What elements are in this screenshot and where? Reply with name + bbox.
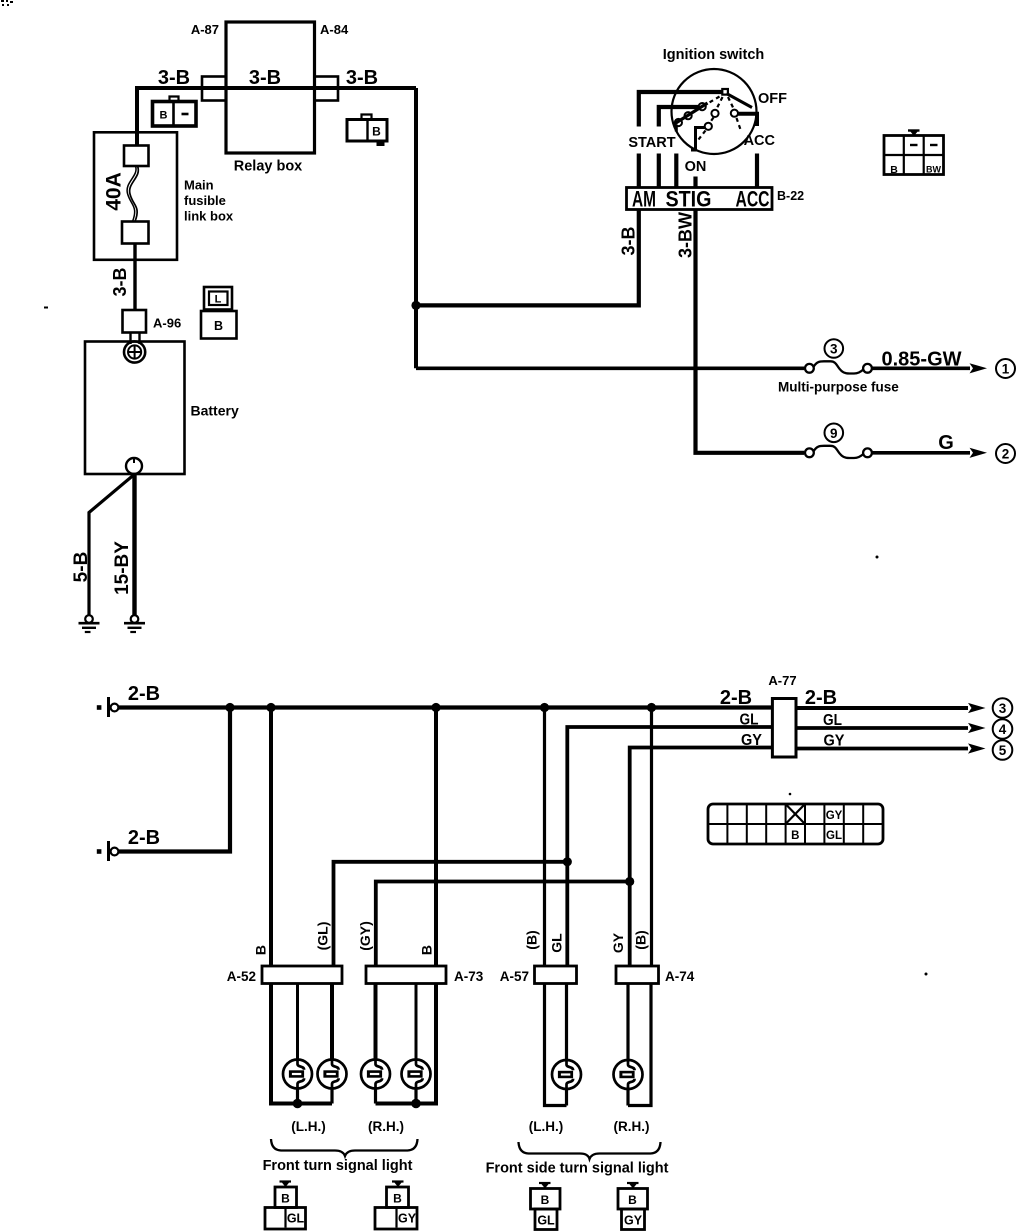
- contact c5: [705, 123, 712, 130]
- svg-text:START: START: [628, 135, 675, 151]
- svg-text:3-B: 3-B: [346, 67, 378, 89]
- svg-text:B: B: [281, 1192, 290, 1206]
- svg-text:B: B: [214, 319, 223, 333]
- ignition switch body circle: [672, 69, 757, 154]
- OFF pointer: [727, 94, 753, 108]
- wire ST feed: [659, 107, 699, 127]
- fuse number 9: [825, 424, 844, 443]
- svg-text:(B): (B): [523, 930, 539, 949]
- svg-text:A-57: A-57: [500, 969, 529, 984]
- wire 15-BY: [132, 474, 136, 616]
- wire to terminal 2: [872, 451, 970, 455]
- svg-text:9: 9: [830, 426, 838, 441]
- node 3: [993, 698, 1013, 718]
- svg-text:G: G: [938, 432, 954, 454]
- stub ACC into B-22: [755, 154, 759, 188]
- connector A-87: [202, 77, 226, 101]
- svg-text:15-BY: 15-BY: [112, 541, 133, 595]
- wire (B) to A-57: [543, 708, 546, 967]
- connector A-77 pin grid: [708, 804, 883, 844]
- svg-text:A-84: A-84: [320, 22, 349, 37]
- junction node bulb1: [293, 1099, 303, 1109]
- connector B-22 box: [627, 188, 773, 210]
- relay box: [226, 22, 315, 153]
- connector A-57: [535, 966, 577, 984]
- stub IG into B-22: [674, 154, 678, 188]
- svg-text:A-77: A-77: [768, 673, 796, 688]
- scan specks top-left corner: [1, 0, 928, 976]
- node 5: [993, 740, 1013, 760]
- junction node rail 4: [540, 703, 549, 712]
- wire A-57 left: [545, 984, 567, 1106]
- svg-text:(GL): (GL): [314, 922, 330, 951]
- wire 3-B: fusible box to A-96: [133, 244, 136, 311]
- svg-text:3-B: 3-B: [110, 267, 130, 296]
- stub ST into B-22: [657, 154, 661, 188]
- fuse terminal bottom: [122, 222, 149, 244]
- wire GY out of A-77: [796, 747, 968, 751]
- svg-text:ACC: ACC: [744, 133, 776, 149]
- svg-text:3-B: 3-B: [158, 67, 190, 89]
- svg-text:GY: GY: [624, 1214, 643, 1228]
- wire bulb4 to rail: [414, 1087, 417, 1104]
- battery terminal stem: [129, 333, 131, 345]
- wire A-73 bulb4 feed: [415, 984, 418, 1062]
- svg-text:GY: GY: [398, 1212, 417, 1226]
- wire 5-B: [89, 476, 133, 616]
- bulb A-52 no1: [283, 1060, 312, 1089]
- svg-text:Ignition switch: Ignition switch: [663, 47, 765, 63]
- svg-text:(GY): (GY): [357, 921, 373, 951]
- wire A-52 return: [271, 984, 332, 1104]
- svg-text:A-74: A-74: [665, 969, 695, 984]
- wire lower ground branch: [119, 708, 231, 852]
- svg-text:2-B: 2-B: [128, 683, 160, 705]
- stub AM into B-22: [637, 154, 641, 188]
- svg-text:OFF: OFF: [758, 91, 787, 107]
- svg-text:3: 3: [999, 701, 1007, 716]
- wire 3-B from AM: [416, 210, 639, 306]
- svg-text:GL: GL: [740, 712, 759, 729]
- wire B to A-73: [434, 708, 438, 967]
- svg-text:40A: 40A: [102, 172, 125, 211]
- junction node rail 1: [225, 703, 234, 712]
- svg-text:(L.H.): (L.H.): [291, 1119, 326, 1134]
- contact c1: [699, 103, 706, 110]
- ground terminal 2-B lower: [97, 841, 119, 861]
- svg-text:GL: GL: [548, 933, 564, 953]
- junction node bulb4: [411, 1099, 421, 1109]
- wire GL main: [567, 727, 772, 966]
- svg-text:B: B: [791, 830, 799, 842]
- stub ON into B-22: [693, 177, 697, 188]
- connector icon B/-: [153, 97, 197, 127]
- dashed pivot to ACC contact: [728, 97, 734, 109]
- svg-text:3-B: 3-B: [618, 226, 638, 255]
- fuse 3: [805, 361, 872, 373]
- svg-text:2: 2: [1002, 447, 1010, 462]
- battery positive terminal: [124, 341, 145, 362]
- junction node: [411, 301, 420, 310]
- wire B to A-52: [269, 708, 273, 967]
- wire A-57 bulb to rail: [565, 1088, 568, 1106]
- svg-text:AM: AM: [632, 187, 656, 212]
- svg-text:3-B: 3-B: [249, 67, 281, 89]
- svg-text:A-73: A-73: [454, 969, 484, 984]
- node 1: [996, 359, 1015, 378]
- svg-text:(R.H.): (R.H.): [368, 1119, 404, 1134]
- svg-text:fusible: fusible: [184, 193, 226, 208]
- svg-text:GL: GL: [823, 712, 842, 729]
- ground 5-B: [79, 615, 100, 632]
- connector icon B/GY front turn: [375, 1182, 417, 1230]
- wire AM feed: [639, 92, 723, 127]
- ground terminal 2-B upper: [97, 697, 119, 717]
- connector A-77: [772, 699, 796, 758]
- junction node rail 3: [431, 703, 440, 712]
- svg-text:GL: GL: [287, 1212, 305, 1226]
- svg-text:ACC: ACC: [736, 187, 770, 212]
- contact c3: [675, 119, 682, 126]
- wire A-73 bulb3 feed: [374, 984, 378, 1062]
- dashed pivot to ST contact: [706, 97, 720, 105]
- svg-text:5-B: 5-B: [71, 552, 92, 583]
- ON wire bracket: [691, 128, 706, 151]
- svg-text:Front turn signal light: Front turn signal light: [263, 1158, 413, 1174]
- svg-text:Battery: Battery: [191, 403, 239, 419]
- wire A-73 return: [376, 984, 437, 1104]
- svg-text:Relay box: Relay box: [234, 159, 303, 175]
- wire A-74 right: [628, 984, 651, 1106]
- battery: [85, 342, 185, 475]
- svg-text:B: B: [628, 1193, 637, 1207]
- svg-text:B: B: [890, 164, 898, 176]
- fuse number 3: [825, 339, 844, 358]
- wire (B) to A-74: [650, 708, 653, 967]
- junction node rail 5: [647, 703, 656, 712]
- dashed pivot to ON contacts: [717, 97, 723, 109]
- stub IG upper: [675, 125, 678, 132]
- fusible link element: [130, 166, 139, 222]
- svg-text:Front side turn signal light: Front side turn signal light: [486, 1161, 669, 1177]
- svg-text:B: B: [541, 1193, 550, 1207]
- svg-text:GY: GY: [824, 733, 845, 750]
- svg-text:B: B: [372, 125, 381, 139]
- wire bulb2 to rail: [330, 1087, 333, 1104]
- brace front turn: [271, 1139, 418, 1156]
- contact c6 ACC: [731, 110, 738, 117]
- svg-text:2-B: 2-B: [805, 687, 837, 709]
- wire 2-B rail: [119, 705, 773, 709]
- main fusible link box: [94, 132, 177, 259]
- wire GY main: [630, 748, 773, 967]
- wire to fuse 3: [416, 366, 804, 370]
- connector A-74: [616, 966, 659, 984]
- svg-text:B: B: [252, 945, 268, 955]
- svg-text:A-52: A-52: [227, 969, 256, 984]
- svg-text:3: 3: [830, 342, 838, 357]
- connector A-52: [262, 966, 342, 984]
- wire A-57 bulb feed: [565, 984, 568, 1062]
- wire GL branch to A-52: [334, 862, 568, 966]
- svg-text:2-B: 2-B: [720, 687, 752, 709]
- wire A-52 bulb1 feed: [296, 984, 299, 1062]
- wire GY branch to A-73: [376, 882, 630, 967]
- svg-text:(L.H.): (L.H.): [529, 1119, 564, 1134]
- svg-text:(B): (B): [632, 930, 648, 949]
- wire A-74 bulb feed: [626, 984, 629, 1062]
- svg-text:3-BW: 3-BW: [675, 212, 695, 258]
- svg-text:BW: BW: [926, 165, 941, 175]
- bulb A-73 no2: [402, 1060, 431, 1089]
- node 2: [996, 444, 1015, 463]
- junction node rail 2: [266, 703, 275, 712]
- svg-text:GL: GL: [537, 1214, 555, 1228]
- wire 3-B: through relay box to corner: [202, 86, 416, 90]
- svg-text:L: L: [215, 294, 222, 306]
- bulb A-57: [552, 1060, 581, 1089]
- switch pivot: [722, 89, 728, 95]
- connector icon B/GL front turn: [265, 1182, 306, 1230]
- fuse terminal top: [124, 146, 149, 167]
- wire 2-B out of A-77: [796, 706, 968, 710]
- svg-text:GL: GL: [826, 830, 842, 842]
- svg-text:ON: ON: [685, 159, 707, 175]
- connector icon 6-cell: [884, 131, 944, 177]
- contact c4: [711, 110, 718, 117]
- svg-text:GY: GY: [741, 732, 762, 749]
- wire A-74 bulb to rail: [626, 1088, 629, 1106]
- junction node GY branch: [625, 877, 634, 886]
- svg-text:B: B: [393, 1192, 402, 1206]
- svg-text:4: 4: [999, 722, 1007, 737]
- connector icon B (right of relay box): [347, 115, 387, 147]
- svg-text:GY: GY: [610, 932, 626, 953]
- connector icon B/GY side turn: [618, 1183, 648, 1230]
- wire: main feed down from relay box: [414, 88, 418, 368]
- bulb A-73 no1: [361, 1060, 390, 1089]
- wire to terminal 1: [872, 366, 970, 370]
- wire ACC feed: [738, 114, 758, 126]
- brace front side turn: [519, 1142, 661, 1159]
- node 4: [993, 719, 1013, 739]
- junction node GL branch: [563, 857, 572, 866]
- svg-text:A-87: A-87: [191, 22, 219, 37]
- svg-text:(R.H.): (R.H.): [614, 1119, 650, 1134]
- wire 3-B: A-87 to fusible link box: [137, 88, 202, 146]
- svg-text:2-B: 2-B: [128, 827, 160, 849]
- wire bulb3 to rail: [374, 1087, 377, 1104]
- wire GL out of A-77: [796, 726, 968, 730]
- svg-text:A-96: A-96: [153, 316, 181, 331]
- battery negative terminal: [126, 458, 142, 474]
- svg-text:Multi-purpose fuse: Multi-purpose fuse: [778, 380, 899, 395]
- ground 15-BY: [124, 615, 145, 632]
- contact c2: [685, 112, 692, 119]
- bulb A-52 no2: [318, 1060, 347, 1089]
- connector icon B/GL side turn: [531, 1183, 561, 1230]
- svg-text:STIG: STIG: [666, 187, 712, 212]
- connector icon L/B: [201, 287, 237, 339]
- connector A-73: [366, 966, 446, 984]
- svg-text:GY: GY: [826, 810, 843, 822]
- svg-text:B-22: B-22: [777, 189, 804, 203]
- svg-text:Main: Main: [184, 178, 214, 193]
- connector A-84: [315, 77, 339, 101]
- connector A-96: [123, 310, 147, 333]
- wire A-52 bulb2 feed: [330, 984, 334, 1062]
- svg-text:5: 5: [999, 743, 1007, 758]
- wire bulb1 to rail: [296, 1087, 299, 1104]
- bulb A-74: [614, 1060, 643, 1089]
- svg-text:link box: link box: [184, 209, 234, 224]
- svg-text:B: B: [160, 110, 168, 122]
- svg-text:1: 1: [1002, 362, 1010, 377]
- switch contact arm: [675, 103, 708, 124]
- svg-text:B: B: [418, 945, 434, 955]
- wire 3-BW from IG: [696, 210, 805, 453]
- fuse 9: [805, 446, 872, 458]
